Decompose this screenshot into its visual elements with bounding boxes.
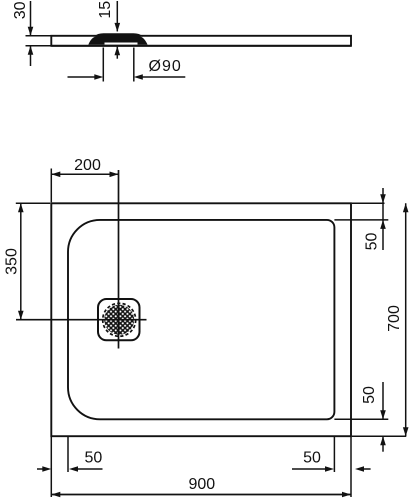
svg-text:30: 30 [12,1,29,19]
svg-text:50: 50 [85,450,103,467]
svg-text:50: 50 [363,233,380,251]
svg-text:Ø90: Ø90 [149,58,182,75]
svg-text:700: 700 [386,305,403,332]
svg-text:200: 200 [74,157,101,174]
svg-text:50: 50 [303,450,321,467]
svg-text:50: 50 [361,386,378,404]
svg-text:900: 900 [188,476,215,493]
svg-text:350: 350 [4,248,21,275]
svg-text:15: 15 [97,1,114,19]
